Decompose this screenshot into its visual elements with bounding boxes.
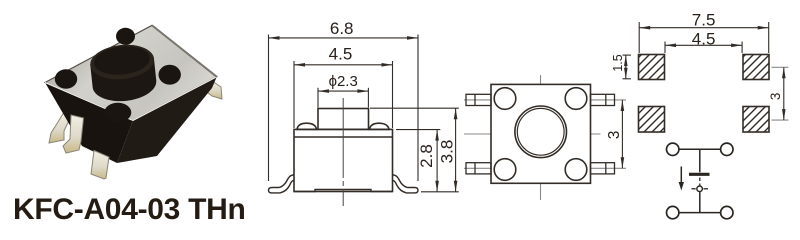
schematic: terminal 2 (top-right) <box>721 143 733 155</box>
dimension 7.5 <box>639 22 769 53</box>
svg-text:2.8: 2.8 <box>417 144 436 168</box>
schematic: terminal 4 (bottom-right) <box>721 206 733 218</box>
dimension 4.5 (land) <box>665 42 742 54</box>
svg-text:3.8: 3.8 <box>438 140 457 164</box>
top view: center button inner circle <box>517 108 564 155</box>
top view: center button outer circle <box>515 106 567 158</box>
svg-text:1.5: 1.5 <box>611 54 625 71</box>
schematic: movable contact bar <box>689 173 710 176</box>
side view: body outline <box>294 129 393 191</box>
schematic: terminal 3 (bottom-left) <box>667 206 679 218</box>
photo: body right face <box>117 77 217 163</box>
top view: corner hole TR <box>565 88 587 110</box>
side view: left bump <box>297 123 317 129</box>
schematic: wire bottom <box>679 212 721 214</box>
photo: corner rivet right <box>159 65 181 85</box>
top view: pin bottom-right <box>591 163 615 174</box>
photo: corner rivet back <box>116 28 135 45</box>
schematic: actuator contact circle <box>697 186 703 192</box>
dimension 4.5 <box>294 61 393 128</box>
photo: body left face <box>45 83 133 164</box>
land pad TL <box>639 55 665 80</box>
photo: push button <box>89 42 159 104</box>
top view: pin bottom-left <box>466 163 491 174</box>
schematic: terminal 1 (top-left) <box>667 143 679 155</box>
top view: body square <box>491 84 591 183</box>
photo: leg back-right <box>203 78 222 99</box>
photo: leg back-left <box>49 112 71 143</box>
side view: left leg <box>269 175 295 193</box>
schematic: wire top <box>679 148 721 150</box>
land pad TR <box>743 55 769 80</box>
dimension 6.8 <box>269 35 419 182</box>
photo: leg front-left <box>63 115 84 153</box>
top view: pin top-left <box>466 94 491 105</box>
top view: corner hole TL <box>494 88 516 110</box>
dimension 3.8 <box>370 108 459 192</box>
photo: metal top plate <box>45 25 217 120</box>
svg-text:6.8: 6.8 <box>330 19 354 38</box>
side view: right bump <box>370 123 390 129</box>
side view: centerline <box>342 98 344 206</box>
dimension phi 2.3 <box>318 88 368 108</box>
part number label <box>13 193 293 227</box>
dimension 2.8 <box>396 130 459 192</box>
svg-text:3: 3 <box>606 131 623 140</box>
svg-text:7.5: 7.5 <box>692 10 716 29</box>
schematic: wire center bottom <box>699 192 701 213</box>
side view: right leg <box>393 175 419 193</box>
side view: stem (button) <box>318 109 369 130</box>
dimension 1.5 (pad height) <box>623 55 632 79</box>
top view: corner hole BR <box>565 159 587 181</box>
dimension 3 (top view pin spacing) <box>621 100 625 168</box>
top view: pin centerlines <box>464 100 626 168</box>
land pad BR <box>743 107 769 133</box>
schematic: dashed actuator link <box>692 178 709 189</box>
svg-text:3: 3 <box>768 93 783 101</box>
photo: corner rivet front <box>104 103 131 123</box>
photo: corner rivet left <box>55 69 77 89</box>
schematic: wire center top <box>699 149 701 172</box>
top view: pin top-right <box>591 94 615 105</box>
land pad BL <box>639 107 665 133</box>
svg-text:4.5: 4.5 <box>692 30 716 49</box>
photo: leg front-center <box>91 151 109 180</box>
dimension 3 (land row spacing) <box>772 67 789 120</box>
top view: centerline horizontal <box>464 133 601 135</box>
top view: corner hole BL <box>494 159 516 181</box>
top view: centerline vertical <box>540 75 542 200</box>
svg-text:ϕ2.3: ϕ2.3 <box>329 73 358 90</box>
svg-text:4.5: 4.5 <box>329 45 353 64</box>
schematic: press direction arrow <box>679 167 684 191</box>
